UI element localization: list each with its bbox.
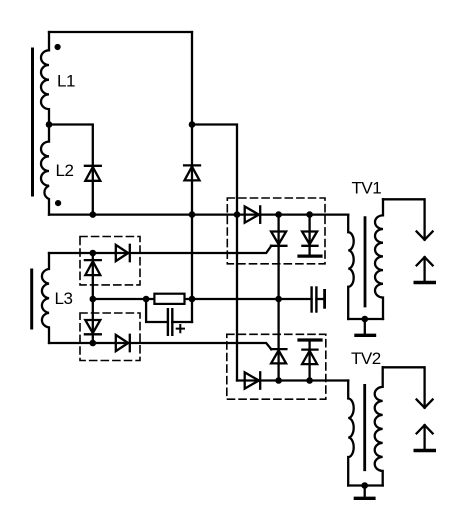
junction dot mid rail thyristor column: [275, 296, 282, 303]
arrow down TV2 output: [417, 400, 433, 408]
junction dot rail-feeder: [234, 211, 241, 218]
svg-text:L1: L1: [57, 72, 75, 91]
junction dot bridge top: [90, 250, 97, 257]
terminal bar right of C2: [323, 290, 326, 307]
dashed box upper diode pair: [80, 237, 140, 285]
wire thyristor column x=278.6: [277, 215, 279, 381]
junction dot lower module diode: [306, 377, 313, 384]
wire cathode rail y=214.6 across to TV1: [49, 213, 348, 215]
diode bridge upper vertical: [85, 259, 101, 261]
wire tap to first rectifier column: [49, 125, 93, 215]
node dot L1 phase marker: [55, 44, 61, 50]
thyristor VS1: [271, 232, 286, 245]
junction dot bridge mid: [90, 296, 97, 303]
wire L3 bottom gate rail to lower thyristor gate: [49, 343, 271, 349]
terminal bar lower module: [299, 338, 321, 341]
transformer TV2 core: [363, 385, 366, 469]
junction dot upper module diode: [306, 211, 313, 218]
terminal bar upper module: [299, 255, 321, 258]
wire TV2 bottom: [348, 484, 383, 486]
junction dot rail-VD1: [90, 211, 97, 218]
diode upper module antiparallel: [302, 232, 317, 245]
diode VD2: [184, 164, 200, 166]
wire DC bus vertical x=192 from top rail to capacitor node: [191, 32, 193, 322]
wire electrolytic branch left: [146, 299, 168, 322]
junction dot bus top branch: [189, 121, 196, 128]
transformer TV1 secondary winding: [375, 199, 383, 319]
node dot L2 phase marker: [55, 200, 61, 206]
resistor R1: [154, 294, 184, 304]
junction dot bridge bottom: [90, 340, 97, 347]
wire L3 bridge mid column: [92, 253, 94, 343]
transformer TV2 primary winding: [348, 381, 354, 486]
inductor L2 winding: [41, 125, 49, 215]
junction dot lower module thyristor: [275, 377, 282, 384]
transformer TV1 core: [364, 218, 367, 306]
junction dot TV1 ground: [362, 316, 369, 323]
diode lower module antiparallel: [302, 351, 317, 364]
wire L3 top gate rail to upper thyristor gate: [49, 246, 271, 253]
diode VD1: [85, 165, 101, 167]
inductor L3 winding: [42, 253, 49, 343]
bar TV2 return terminal: [415, 449, 434, 452]
wire mid rail y=299: [93, 298, 312, 300]
wire top rail from L1 top to DC bus: [49, 31, 192, 33]
core bar of L3 transformer: [30, 270, 33, 328]
arrow up TV1 return: [417, 257, 433, 265]
wire upper module diode stem: [308, 215, 310, 255]
diode bridge upper horizontal: [116, 245, 128, 261]
ground TV1: [364, 319, 366, 334]
svg-text:TV1: TV1: [352, 178, 382, 197]
junction dot mid rail left: [143, 296, 150, 303]
svg-text:L3: L3: [55, 289, 73, 308]
transformer TV2 secondary winding: [375, 367, 383, 485]
dashed box upper thyristor module: [227, 198, 325, 264]
thyristor VS2: [271, 350, 286, 363]
junction L1-L2 tap: [46, 121, 53, 128]
junction dot TV2 ground: [361, 482, 368, 489]
junction dot mid rail bus: [189, 296, 196, 303]
wire TV2 secondary top to output: [383, 367, 425, 407]
capacitor C1 electrolytic plates: [167, 309, 169, 335]
junction dot rail-bus: [189, 211, 196, 218]
diode bridge lower vertical: [85, 320, 100, 333]
diode series lower module: [245, 372, 259, 388]
wire branch from bus to module feeder x=237: [192, 125, 237, 381]
junction dot upper module thyristor: [275, 211, 282, 218]
plus sign of C1: [177, 325, 184, 332]
wire lower rail y=380.5 feeder to TV2: [237, 379, 348, 381]
core bar of L1/L2 transformer: [31, 49, 34, 195]
wire C2 stub: [316, 298, 323, 300]
wire lower module diode stem: [308, 342, 310, 381]
dashed box lower diode pair: [80, 313, 140, 361]
bar TV1 return terminal: [415, 281, 434, 284]
wire TV1 bottom: [348, 318, 383, 320]
arrow down TV1 output: [417, 232, 433, 240]
capacitor C2 commutation plates: [310, 288, 312, 312]
arrow up TV2 return: [417, 425, 433, 433]
inductor L1 winding: [41, 32, 49, 125]
diode series upper module: [245, 207, 259, 223]
svg-text:L2: L2: [56, 161, 74, 180]
wire electrolytic branch right: [172, 321, 192, 323]
wire TV1 secondary top to output: [383, 199, 425, 239]
svg-text:TV2: TV2: [351, 349, 381, 368]
transformer TV1 primary winding: [348, 215, 354, 319]
dashed box lower thyristor module: [227, 334, 326, 399]
diode bridge lower horizontal: [116, 335, 128, 351]
ground TV2: [364, 486, 366, 498]
